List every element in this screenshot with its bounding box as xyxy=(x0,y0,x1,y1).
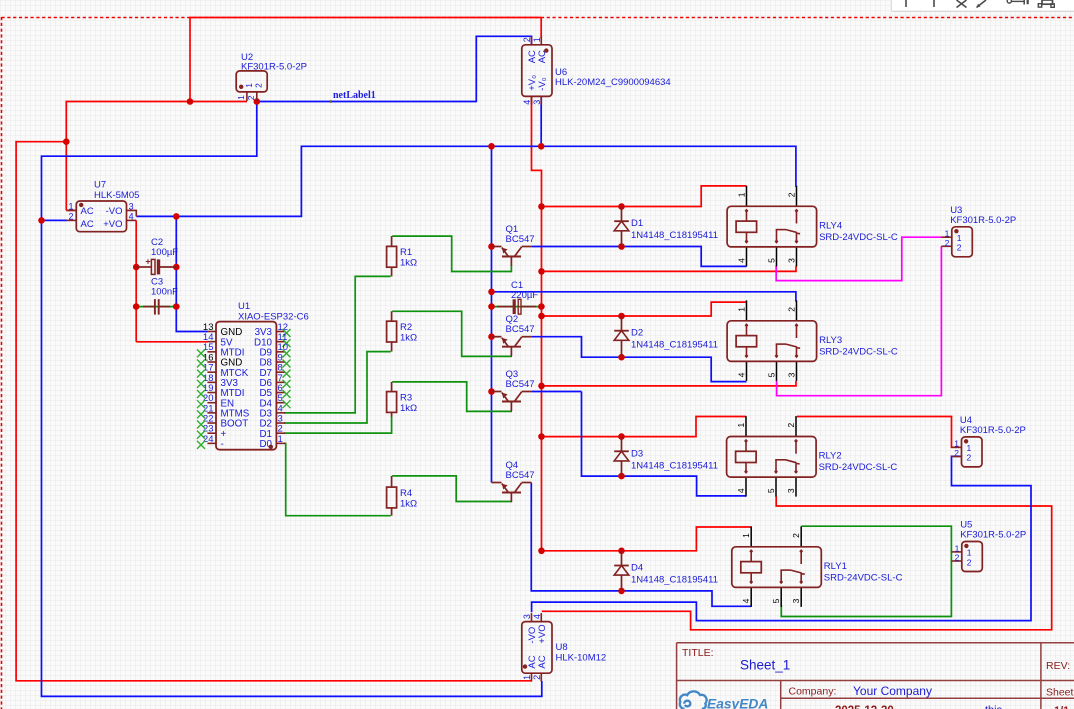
svg-text:1: 1 xyxy=(236,95,246,100)
svg-text:U8: U8 xyxy=(556,642,568,653)
svg-text:4: 4 xyxy=(736,488,746,493)
svg-text:1kΩ: 1kΩ xyxy=(400,403,417,414)
svg-text:1: 1 xyxy=(737,192,747,197)
svg-text:KF301R-5.0-2P: KF301R-5.0-2P xyxy=(960,425,1026,436)
svg-text:R1: R1 xyxy=(400,247,412,258)
svg-text:3: 3 xyxy=(129,201,134,211)
svg-text:4: 4 xyxy=(532,614,542,619)
svg-text:5: 5 xyxy=(767,258,777,263)
svg-text:3: 3 xyxy=(787,258,797,263)
svg-text:2025-12-30: 2025-12-30 xyxy=(835,705,894,709)
svg-text:R4: R4 xyxy=(400,488,412,499)
svg-text:HLK-10M12: HLK-10M12 xyxy=(556,653,607,664)
svg-text:+: + xyxy=(145,257,150,267)
svg-text:netLabel1: netLabel1 xyxy=(333,90,376,101)
svg-text:1: 1 xyxy=(532,37,542,42)
svg-text:2: 2 xyxy=(787,192,797,197)
svg-text:2: 2 xyxy=(786,423,796,428)
svg-text:3: 3 xyxy=(786,488,796,493)
svg-text:2: 2 xyxy=(787,307,797,312)
svg-text:this: this xyxy=(985,705,1003,709)
svg-text:Your Company: Your Company xyxy=(853,684,932,698)
svg-text:BC547: BC547 xyxy=(506,234,535,245)
svg-text:Company:: Company: xyxy=(789,686,837,698)
svg-text:1kΩ: 1kΩ xyxy=(400,258,417,269)
svg-text:3: 3 xyxy=(532,100,542,105)
svg-text:AC: AC xyxy=(81,219,94,230)
svg-text:2: 2 xyxy=(246,95,256,100)
svg-text:1: 1 xyxy=(967,443,972,453)
svg-text:2: 2 xyxy=(954,448,959,458)
svg-text:5: 5 xyxy=(767,372,777,377)
svg-text:2: 2 xyxy=(254,83,264,88)
svg-text:3: 3 xyxy=(787,372,797,377)
svg-text:2: 2 xyxy=(532,675,542,680)
svg-text:1N4148_C18195411: 1N4148_C18195411 xyxy=(631,575,718,586)
svg-text:D3: D3 xyxy=(631,448,643,459)
svg-text:2: 2 xyxy=(68,212,73,222)
svg-text:1: 1 xyxy=(736,423,746,428)
svg-text:1/1: 1/1 xyxy=(1054,705,1069,709)
svg-text:1: 1 xyxy=(737,307,747,312)
svg-text:1kΩ: 1kΩ xyxy=(400,498,417,509)
svg-text:4: 4 xyxy=(737,372,747,377)
svg-text:Sheet: Sheet xyxy=(1046,687,1074,699)
svg-text:-: - xyxy=(221,439,224,450)
svg-text:KF301R-5.0-2P: KF301R-5.0-2P xyxy=(950,215,1016,226)
svg-text:SRD-24VDC-SL-C: SRD-24VDC-SL-C xyxy=(819,462,898,473)
svg-text:1: 1 xyxy=(278,434,283,445)
svg-text:100µF: 100µF xyxy=(151,247,178,258)
svg-text:1: 1 xyxy=(957,233,962,243)
svg-text:+VO: +VO xyxy=(537,624,548,643)
svg-text:4: 4 xyxy=(129,212,134,222)
svg-text:1: 1 xyxy=(244,83,254,88)
svg-text:HLK-20M24_C9900094634: HLK-20M24_C9900094634 xyxy=(555,77,671,88)
svg-text:RLY1: RLY1 xyxy=(824,561,847,572)
svg-text:RLY4: RLY4 xyxy=(819,220,842,231)
svg-text:4: 4 xyxy=(522,100,532,105)
svg-text:2: 2 xyxy=(791,533,801,538)
svg-text:KF301R-5.0-2P: KF301R-5.0-2P xyxy=(960,530,1026,541)
svg-text:REV:: REV: xyxy=(1046,660,1070,672)
svg-text:4: 4 xyxy=(741,598,751,603)
svg-text:-V₀: -V₀ xyxy=(537,77,548,91)
svg-text:1kΩ: 1kΩ xyxy=(400,332,417,343)
svg-text:BC547: BC547 xyxy=(506,379,535,390)
svg-text:1: 1 xyxy=(68,201,73,211)
svg-text:24: 24 xyxy=(203,434,214,445)
svg-text:R2: R2 xyxy=(400,322,412,333)
svg-text:+VO: +VO xyxy=(103,219,122,230)
svg-text:AC: AC xyxy=(81,206,94,217)
svg-text:2: 2 xyxy=(967,557,972,567)
svg-text:R3: R3 xyxy=(400,392,412,403)
svg-text:TITLE:: TITLE: xyxy=(682,647,714,659)
svg-text:100nF: 100nF xyxy=(151,287,178,298)
svg-text:1: 1 xyxy=(741,533,751,538)
svg-text:BC547: BC547 xyxy=(506,324,535,335)
svg-text:1: 1 xyxy=(522,675,532,680)
svg-text:KF301R-5.0-2P: KF301R-5.0-2P xyxy=(241,61,307,72)
svg-text:Sheet_1: Sheet_1 xyxy=(740,658,790,673)
svg-text:5: 5 xyxy=(766,488,776,493)
svg-text:3: 3 xyxy=(522,614,532,619)
svg-text:4: 4 xyxy=(737,258,747,263)
svg-text:SRD-24VDC-SL-C: SRD-24VDC-SL-C xyxy=(824,572,903,583)
svg-text:D4: D4 xyxy=(631,563,643,574)
svg-text:EasyEDA: EasyEDA xyxy=(707,696,768,709)
svg-text:1N4148_C18195411: 1N4148_C18195411 xyxy=(631,340,718,351)
svg-text:3: 3 xyxy=(791,598,801,603)
svg-text:AC: AC xyxy=(537,655,548,668)
svg-text:5: 5 xyxy=(771,598,781,603)
svg-text:-VO: -VO xyxy=(106,206,123,217)
svg-text:SRD-24VDC-SL-C: SRD-24VDC-SL-C xyxy=(819,346,898,357)
svg-text:BC547: BC547 xyxy=(506,470,535,481)
svg-text:HLK-5M05: HLK-5M05 xyxy=(94,190,139,201)
svg-text:2: 2 xyxy=(945,238,950,248)
svg-text:2: 2 xyxy=(955,553,960,563)
svg-text:SRD-24VDC-SL-C: SRD-24VDC-SL-C xyxy=(819,232,898,243)
svg-text:1N4148_C18195411: 1N4148_C18195411 xyxy=(631,230,718,241)
svg-text:RLY2: RLY2 xyxy=(819,451,842,462)
svg-text:D1: D1 xyxy=(631,218,643,229)
svg-text:D2: D2 xyxy=(631,328,643,339)
svg-text:XIAO-ESP32-C6: XIAO-ESP32-C6 xyxy=(238,311,309,322)
svg-text:220µF: 220µF xyxy=(511,290,538,301)
svg-text:1: 1 xyxy=(967,548,972,558)
svg-text:2: 2 xyxy=(957,243,962,253)
svg-text:RLY3: RLY3 xyxy=(819,335,842,346)
svg-text:1N4148_C18195411: 1N4148_C18195411 xyxy=(631,460,718,471)
svg-text:2: 2 xyxy=(522,37,532,42)
svg-text:2: 2 xyxy=(967,453,972,463)
